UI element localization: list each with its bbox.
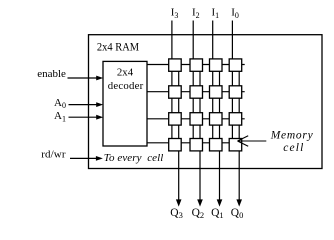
svg-text:Q2: Q2 [192, 207, 205, 220]
svg-text:To every cell: To every cell [104, 152, 164, 164]
memory cell BC row 2 col 3 [210, 86, 223, 98]
svg-text:I0: I0 [231, 7, 239, 20]
memory cell BC row 3 col 4 [229, 113, 242, 125]
svg-text:Memory: Memory [270, 130, 314, 142]
output bit line Q2 (wire) [199, 65, 201, 200]
address A1 input arrowhead [96, 115, 103, 120]
word-select line row 3 (wire) [147, 118, 245, 120]
address A0 input wire [69, 104, 98, 106]
memory cell BC row 2 col 1 [169, 86, 182, 98]
read/write control wire [70, 157, 97, 159]
memory cell BC row 4 col 4 [229, 139, 242, 151]
memory-cell pointer arrow [238, 136, 267, 147]
memory cell BC row 2 col 2 [190, 86, 203, 98]
memory cell BC row 1 col 1 [169, 59, 182, 71]
input bit line I0 (wire) [231, 21, 233, 145]
address A0 input arrowhead [96, 102, 103, 107]
svg-text:A0: A0 [54, 97, 66, 110]
svg-text:Q3: Q3 [170, 207, 183, 220]
svg-text:decoder: decoder [108, 80, 144, 92]
decoder U1 box [103, 61, 147, 146]
svg-text:rd/wr: rd/wr [41, 149, 66, 161]
output bit line Q3 (wire) [178, 65, 180, 200]
svg-text:A1: A1 [54, 110, 66, 123]
svg-text:enable: enable [37, 68, 66, 80]
input bit line I2 (wire) [192, 21, 194, 145]
memory cell BC row 4 col 2 [190, 139, 203, 151]
memory cell BC row 4 col 3 [210, 139, 223, 151]
memory cell BC row 1 col 2 [190, 59, 203, 71]
svg-text:I2: I2 [192, 7, 200, 20]
output arrowhead Q2 [197, 199, 203, 206]
output arrowhead Q1 [217, 199, 223, 206]
svg-text:Q1: Q1 [211, 207, 224, 220]
output bit line Q1 (wire) [219, 65, 221, 200]
input bit line I3 (wire) [171, 21, 173, 145]
memory cell BC row 1 col 4 [229, 59, 242, 71]
word-select line row 4 (wire) [147, 142, 242, 144]
enable input arrowhead [96, 76, 103, 81]
input bit line I1 (wire) [212, 21, 214, 145]
output arrowhead Q0 [236, 199, 242, 206]
enable input wire [68, 77, 98, 79]
RAM block outer box [89, 35, 323, 169]
svg-text:2x4: 2x4 [117, 66, 134, 78]
output bit line Q0 (wire) [238, 65, 240, 200]
svg-text:I3: I3 [171, 7, 179, 20]
memory cell BC row 2 col 4 [229, 86, 242, 98]
memory cell BC row 1 col 3 [210, 59, 223, 71]
word-select line row 2 (wire) [147, 91, 245, 93]
output arrowhead Q3 [176, 199, 182, 206]
memory cell BC row 3 col 1 [169, 113, 182, 125]
svg-text:I1: I1 [212, 7, 220, 20]
memory cell BC row 3 col 3 [210, 113, 223, 125]
word-select line row 1 (wire) [147, 64, 245, 66]
svg-text:cell: cell [283, 142, 303, 154]
memory cell BC row 3 col 2 [190, 113, 203, 125]
read/write control arrowhead [96, 156, 103, 161]
svg-text:Q0: Q0 [231, 207, 244, 220]
address A1 input wire [69, 116, 98, 118]
svg-text:2x4 RAM: 2x4 RAM [97, 42, 139, 54]
memory cell BC row 4 col 1 [169, 139, 182, 151]
